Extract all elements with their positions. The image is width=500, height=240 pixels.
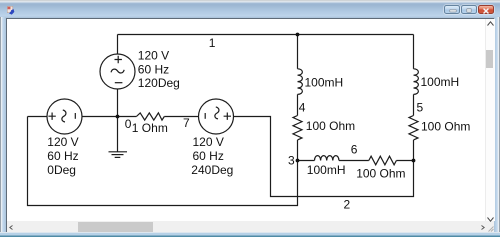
svg-text:6: 6 xyxy=(351,143,358,157)
svg-text:100 Ohm: 100 Ohm xyxy=(356,166,405,180)
svg-text:60 Hz: 60 Hz xyxy=(138,62,169,76)
svg-text:60 Hz: 60 Hz xyxy=(193,149,224,163)
svg-text:120Deg: 120Deg xyxy=(138,76,180,90)
svg-text:2: 2 xyxy=(344,198,351,212)
svg-text:0: 0 xyxy=(125,117,132,131)
svg-text:1: 1 xyxy=(209,36,216,50)
svg-text:100mH: 100mH xyxy=(305,75,344,89)
svg-text:100mH: 100mH xyxy=(307,163,346,177)
svg-text:5: 5 xyxy=(417,101,424,115)
svg-text:3: 3 xyxy=(288,154,295,168)
svg-text:120 V: 120 V xyxy=(138,48,169,62)
svg-text:7: 7 xyxy=(183,116,190,130)
svg-text:100 Ohm: 100 Ohm xyxy=(306,119,355,133)
svg-text:1 Ohm: 1 Ohm xyxy=(132,121,168,135)
svg-text:60 Hz: 60 Hz xyxy=(47,149,78,163)
svg-text:100mH: 100mH xyxy=(421,75,460,89)
svg-text:120 V: 120 V xyxy=(193,135,224,149)
svg-text:100 Ohm: 100 Ohm xyxy=(421,119,470,133)
svg-text:120 V: 120 V xyxy=(47,135,78,149)
svg-text:0Deg: 0Deg xyxy=(47,163,76,177)
svg-text:240Deg: 240Deg xyxy=(191,163,233,177)
svg-text:4: 4 xyxy=(299,101,306,115)
